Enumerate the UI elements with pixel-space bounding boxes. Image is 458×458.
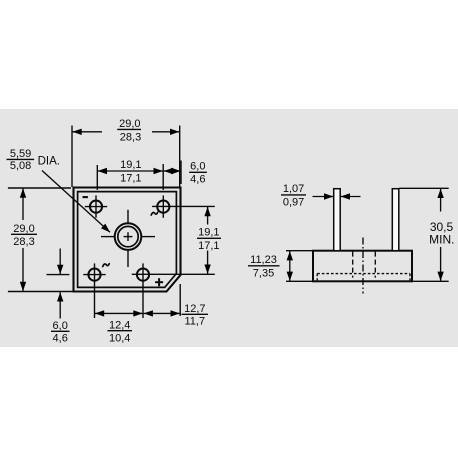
pin hole top-left	[85, 195, 107, 217]
svg-text:11,7: 11,7	[185, 316, 206, 328]
dimension 6,0/4,6 bottom-left: up arrow	[59, 292, 61, 318]
pin hole bottom-right	[132, 263, 215, 285]
side view left pin	[334, 189, 341, 251]
svg-text:7,35: 7,35	[253, 267, 274, 279]
dimension 29,0/28,3 top: dimension line with arrows	[72, 131, 179, 133]
svg-text:1,07: 1,07	[283, 183, 304, 195]
svg-text:17,1: 17,1	[120, 172, 141, 184]
leader line to center hole	[42, 171, 110, 233]
svg-text:11,23: 11,23	[250, 254, 277, 266]
svg-text:29,0: 29,0	[119, 118, 140, 130]
tilde label near top-right pin	[151, 212, 158, 215]
dimension 19,1/17,1 right: dimension line with arrows	[207, 207, 209, 274]
svg-text:5,08: 5,08	[10, 160, 31, 172]
dimension 11,23/7,35 body height: extension lines	[286, 251, 313, 282]
dimension 19,1/17,1 top: fraction text	[120, 159, 141, 184]
svg-text:19,1: 19,1	[198, 227, 219, 239]
center hole inner circle	[118, 226, 138, 246]
svg-text:28,3: 28,3	[13, 236, 34, 248]
dimension 12,4/10,4 bottom: dimension line with arrows	[95, 312, 143, 314]
dimension 11,23/7,35: fraction text	[248, 254, 280, 279]
center hole outer circle	[115, 223, 142, 250]
plus polarity label	[155, 278, 163, 286]
svg-text:4,6: 4,6	[53, 333, 68, 345]
dimension 12,7/11,7 bottom-right: fraction text	[182, 303, 209, 328]
svg-text:29,0: 29,0	[13, 223, 34, 235]
dimension 30,5 MIN pin length: extension lines	[399, 188, 448, 281]
hidden recess right corner	[409, 274, 411, 281]
dimension 29,0/28,3 top: fraction text	[117, 118, 141, 144]
svg-text:DIA.: DIA.	[38, 155, 60, 167]
gray drawing band background	[0, 109, 458, 347]
dimension 11,23/7,35: double arrow	[289, 251, 291, 281]
dimension 5,59/5,08 DIA leader text	[7, 148, 60, 172]
dimension 6,0/4,6 top-right: fraction text	[189, 161, 207, 186]
dimension 30,5 MIN: dimension line with arrows	[440, 189, 442, 281]
pin hole top-right	[152, 195, 215, 217]
svg-text:6,0: 6,0	[53, 320, 68, 332]
front view outer outline with chamfer	[74, 188, 181, 292]
dimension 29,0/28,3 left: dimension line with arrows	[22, 188, 24, 291]
svg-text:0,97: 0,97	[283, 197, 304, 209]
front view inner outline	[78, 192, 177, 288]
dimension 19,1/17,1 right: fraction text	[197, 227, 221, 253]
dimension 12,4/10,4 bottom: fraction text	[108, 320, 133, 345]
svg-text:5,59: 5,59	[10, 148, 31, 160]
dimension 29,0/28,3 left: fraction text	[11, 223, 37, 248]
dimension 12,7/11,7 bottom-right: dimension line with arrows	[144, 312, 180, 314]
svg-text:19,1: 19,1	[120, 159, 141, 171]
svg-text:17,1: 17,1	[198, 240, 219, 252]
dimension 6,0/4,6 bottom-left: down arrow	[59, 249, 61, 275]
dimension 19,1/17,1 top: dimension line with arrows	[98, 170, 163, 172]
dimension 6,0/4,6 bottom-left: fraction text	[51, 320, 70, 345]
dimension 29,0/28,3 top: extension lines	[72, 126, 180, 188]
side view vertical dash-dot centerline	[362, 238, 364, 294]
hidden hole line right	[374, 252, 376, 278]
minus polarity label	[83, 196, 88, 198]
hidden recess left corner	[316, 274, 318, 281]
center hole centerlines	[101, 210, 155, 267]
dimension 6,0/4,6 top-right: extension line	[180, 161, 182, 185]
dimension 19,1/17,1 top: extension lines	[97, 164, 163, 190]
svg-text:10,4: 10,4	[109, 332, 130, 344]
dimension 29,0/28,3 left: extension lines	[8, 188, 74, 292]
side view body	[313, 251, 412, 282]
dimension 1,07/0,97 pin width: arrows	[313, 196, 361, 198]
hidden hole line left	[352, 252, 354, 278]
svg-text:4,6: 4,6	[190, 174, 205, 186]
dimension 6,0/4,6 top-right: arrows pointing outward	[164, 170, 181, 172]
svg-text:6,0: 6,0	[190, 161, 205, 173]
dimension 30,5 MIN: text	[429, 220, 454, 246]
pin hole bottom-left	[83, 263, 105, 285]
svg-text:12,7: 12,7	[184, 303, 205, 315]
dimension 6,0/4,6 bottom-left: short reference line	[47, 274, 70, 276]
svg-text:MIN.: MIN.	[429, 232, 454, 246]
dimension 12,4/10,4 bottom: extension lines	[95, 286, 144, 319]
dimension 12,7/11,7 bottom-right: extension line	[179, 284, 181, 316]
hidden recess horizontal line	[317, 273, 410, 275]
dimension 1,07/0,97: fraction text	[281, 183, 306, 208]
tilde label near bottom-left pin	[103, 264, 110, 267]
svg-text:12,4: 12,4	[109, 320, 130, 332]
side view right pin	[392, 189, 399, 251]
svg-text:28,3: 28,3	[120, 132, 141, 144]
